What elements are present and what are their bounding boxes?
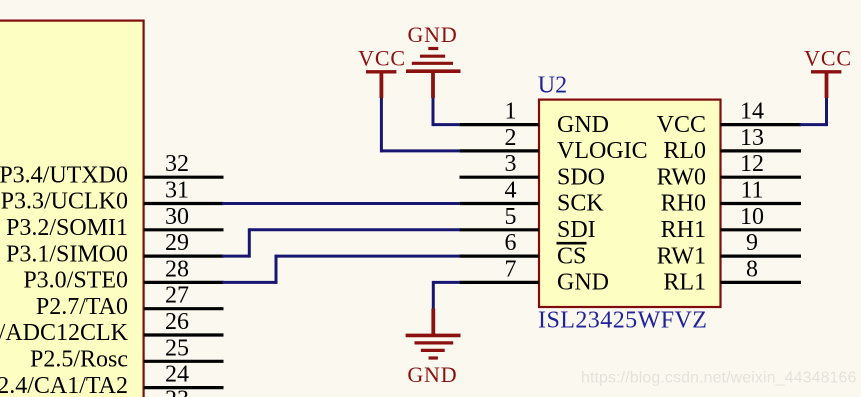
svg-text:7: 7 xyxy=(505,256,517,282)
pin 1 (GND) xyxy=(460,99,610,138)
pin 11 (RH0) xyxy=(661,178,801,217)
power GND (bottom earth) xyxy=(406,309,461,388)
pin 26 (/ADC12CLK) xyxy=(0,309,224,346)
svg-text:https://blog.csdn.net/weixin_4: https://blog.csdn.net/weixin_44348166 xyxy=(581,370,857,387)
svg-text:VCC: VCC xyxy=(804,46,852,71)
svg-text:26: 26 xyxy=(165,309,189,335)
svg-text:8: 8 xyxy=(746,256,758,282)
wire net SIMO0 (pin29 to U2 pin5 SDI) xyxy=(222,228,460,257)
power VCC (left) xyxy=(358,46,406,99)
power GND (top, inverted earth) xyxy=(406,22,461,98)
svg-text:28: 28 xyxy=(165,256,189,282)
pin 5 (SDI) xyxy=(460,204,596,243)
wire U2 pin14 to VCC right xyxy=(800,98,827,127)
IC U1 body (MCU, partial at left) xyxy=(0,21,144,397)
svg-text:GND: GND xyxy=(557,270,609,296)
svg-text:29: 29 xyxy=(165,230,189,256)
svg-text:RL1: RL1 xyxy=(663,270,706,296)
svg-text:14: 14 xyxy=(740,99,764,125)
pin 29 (P3.1/SIMO0) xyxy=(6,230,224,267)
svg-text:32: 32 xyxy=(165,151,189,177)
pin 24 (P2.4/CA1/TA2) xyxy=(0,362,224,397)
svg-text:GND: GND xyxy=(557,112,609,138)
svg-text:23: 23 xyxy=(165,387,189,397)
svg-text:5: 5 xyxy=(505,204,517,230)
svg-text:VLOGIC: VLOGIC xyxy=(557,138,648,164)
svg-text:/ADC12CLK: /ADC12CLK xyxy=(0,320,129,346)
pin 9 (RW1) xyxy=(657,230,801,269)
svg-text:RH1: RH1 xyxy=(661,217,706,243)
svg-text:RL0: RL0 xyxy=(663,138,706,164)
pin 2 (VLOGIC) xyxy=(460,125,648,164)
power VCC (right) xyxy=(804,46,852,99)
pin 28 (P3.0/STE0) xyxy=(23,256,223,293)
svg-text:P2.7/TA0: P2.7/TA0 xyxy=(36,294,128,320)
pin 32 (P3.4/UTXD0) xyxy=(0,151,224,188)
svg-text:SCK: SCK xyxy=(557,191,604,217)
svg-text:SDI: SDI xyxy=(557,217,596,243)
svg-text:RH0: RH0 xyxy=(661,191,706,217)
svg-text:P3.2/SOMI1: P3.2/SOMI1 xyxy=(6,215,128,241)
svg-text:RW1: RW1 xyxy=(657,243,706,269)
pin 13 (RL0) xyxy=(663,125,801,164)
pin 10 (RH1) xyxy=(661,204,801,243)
svg-text:SDO: SDO xyxy=(557,164,605,190)
pin 7 (GND) xyxy=(460,256,610,295)
pin 3 (SDO) xyxy=(460,151,606,190)
svg-text:2.4/CA1/TA2: 2.4/CA1/TA2 xyxy=(0,373,128,397)
svg-text:24: 24 xyxy=(165,362,189,388)
svg-text:P2.5/Rosc: P2.5/Rosc xyxy=(30,347,128,373)
svg-text:RW0: RW0 xyxy=(657,164,706,190)
pin 25 (P2.5/Rosc) xyxy=(30,335,224,372)
svg-text:27: 27 xyxy=(165,283,189,309)
svg-text:9: 9 xyxy=(746,230,758,256)
wire VCC left to U2 pin2 xyxy=(381,98,460,153)
svg-text:2: 2 xyxy=(505,125,517,151)
svg-text:6: 6 xyxy=(505,230,517,256)
svg-text:12: 12 xyxy=(740,151,764,177)
pin 27 (P2.7/TA0) xyxy=(36,283,224,320)
svg-text:31: 31 xyxy=(165,178,189,204)
wire U2 pin7 to GND bottom xyxy=(433,281,460,309)
svg-text:U2: U2 xyxy=(538,73,567,99)
pin 4 (SCK) xyxy=(460,178,605,217)
svg-text:GND: GND xyxy=(407,22,457,47)
svg-text:25: 25 xyxy=(165,335,189,361)
pin 14 (VCC) xyxy=(657,99,801,138)
pin 8 (RL1) xyxy=(663,256,801,295)
wire net STE0 (pin28 to U2 pin6 CS) xyxy=(222,255,460,284)
svg-text:11: 11 xyxy=(740,178,763,204)
svg-text:1: 1 xyxy=(505,99,517,125)
wire GND top to U2 pin1 xyxy=(433,98,460,127)
svg-text:CS: CS xyxy=(557,243,586,269)
svg-text:10: 10 xyxy=(740,204,764,230)
pin 30 (P3.2/SOMI1) xyxy=(6,204,224,241)
svg-text:ISL23425WFVZ: ISL23425WFVZ xyxy=(538,308,707,334)
svg-text:P3.3/UCLK0: P3.3/UCLK0 xyxy=(1,189,128,215)
wire net SCK (pin31 to U2 pin4) xyxy=(222,202,460,205)
svg-text:30: 30 xyxy=(165,204,189,230)
pin 31 (P3.3/UCLK0) xyxy=(1,178,224,215)
pin 23 (partial at bottom edge) xyxy=(165,387,189,397)
svg-text:P3.1/SIMO0: P3.1/SIMO0 xyxy=(6,241,128,267)
svg-text:VCC: VCC xyxy=(657,112,706,138)
svg-text:GND: GND xyxy=(407,362,457,387)
svg-text:3: 3 xyxy=(505,151,517,177)
pin 12 (RW0) xyxy=(657,151,801,190)
svg-text:VCC: VCC xyxy=(358,46,406,71)
IC U2 body xyxy=(539,100,721,307)
svg-text:4: 4 xyxy=(505,178,517,204)
svg-text:P3.0/STE0: P3.0/STE0 xyxy=(23,268,128,294)
svg-text:P3.4/UTXD0: P3.4/UTXD0 xyxy=(0,162,128,188)
pin 6 (CS, active low with overline) xyxy=(460,230,587,269)
svg-text:13: 13 xyxy=(740,125,764,151)
